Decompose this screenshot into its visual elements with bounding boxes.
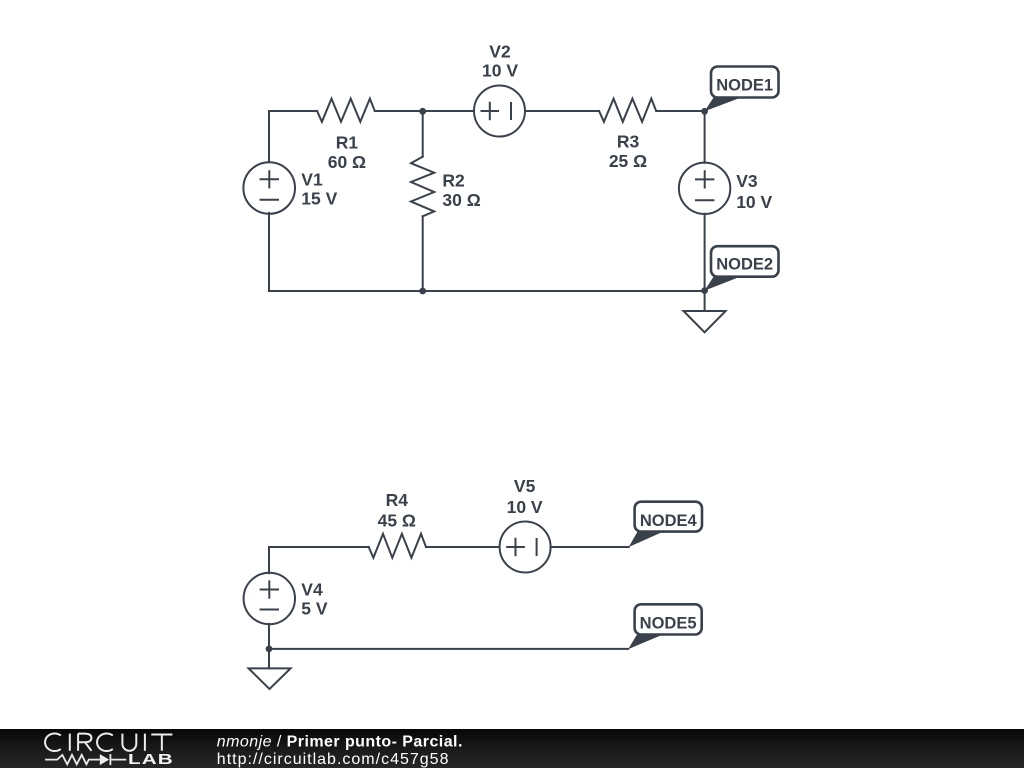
footer bar xyxy=(0,729,1024,768)
svg-text:LAB: LAB xyxy=(128,751,174,768)
resistor R4 xyxy=(369,534,426,558)
resistor R3 xyxy=(599,99,656,122)
svg-text:R2: R2 xyxy=(442,171,465,191)
label V4 xyxy=(301,580,323,600)
footer title text xyxy=(217,734,463,768)
svg-text:NODE2: NODE2 xyxy=(716,255,773,273)
wire R1 to V2 xyxy=(375,110,474,112)
wire R4 to V5 xyxy=(426,546,500,548)
node dot NODE1 xyxy=(701,108,708,115)
svg-text:NODE1: NODE1 xyxy=(716,76,773,94)
label R2 xyxy=(442,171,465,191)
label V1 value 15 V xyxy=(301,188,337,208)
wire V4 bottom xyxy=(268,624,270,649)
svg-text:R1: R1 xyxy=(336,133,359,153)
svg-text:NODE4: NODE4 xyxy=(640,512,698,530)
logo LAB wordmark xyxy=(128,751,174,768)
ground bottom circuit xyxy=(249,649,291,689)
svg-text:V5: V5 xyxy=(514,476,536,496)
wire V1 bottom xyxy=(268,213,270,291)
label V5 value 10 V xyxy=(507,497,543,517)
label V5 xyxy=(514,476,536,496)
wire V3 top xyxy=(704,111,706,163)
svg-text:10 V: 10 V xyxy=(736,192,772,212)
wire V5 to NODE4 xyxy=(551,546,629,548)
svg-text:15 V: 15 V xyxy=(301,188,337,208)
label R4 value 45 Ω xyxy=(378,510,416,530)
wire R3 to node NODE1 xyxy=(656,110,704,112)
label R1 value 60 Ω xyxy=(328,152,366,172)
svg-text:30 Ω: 30 Ω xyxy=(442,190,480,210)
logo resistor-diode glyph xyxy=(45,754,126,765)
wire bottom rail bottom circuit xyxy=(269,648,628,650)
wire R2 top xyxy=(422,111,424,157)
voltage source V5 xyxy=(500,522,551,573)
wire R2 bottom xyxy=(422,216,424,291)
voltage source V1 xyxy=(243,162,295,214)
svg-text:R3: R3 xyxy=(617,132,640,152)
resistor R1 xyxy=(317,99,375,122)
label R1 xyxy=(336,133,359,153)
label V3 xyxy=(736,171,758,191)
svg-text:http://circuitlab.com/c457g58: http://circuitlab.com/c457g58 xyxy=(217,751,450,768)
svg-text:45 Ω: 45 Ω xyxy=(378,510,416,530)
voltage source V3 xyxy=(679,163,730,214)
label V2 xyxy=(489,41,511,61)
label R2 value 30 Ω xyxy=(442,190,480,210)
svg-text:V4: V4 xyxy=(301,580,323,600)
svg-text:10 V: 10 V xyxy=(482,61,518,81)
svg-text:R4: R4 xyxy=(386,490,409,510)
wire bottom circuit top-left vertical xyxy=(268,547,270,573)
svg-text:60 Ω: 60 Ω xyxy=(328,152,366,172)
junction dot V4 bottom xyxy=(266,646,273,653)
voltage source V2 xyxy=(474,86,525,137)
label V3 value 10 V xyxy=(736,192,772,212)
wire V2 to R3 xyxy=(525,110,599,112)
ground top circuit xyxy=(684,291,726,333)
junction dot at R1/R2 node xyxy=(419,108,426,115)
svg-text:nmonje / Primer punto- Parcial: nmonje / Primer punto- Parcial. xyxy=(217,734,463,751)
svg-text:V2: V2 xyxy=(489,41,511,61)
label R4 xyxy=(386,490,409,510)
svg-text:10 V: 10 V xyxy=(507,497,543,517)
wire top rail bottom circuit xyxy=(269,546,369,548)
label V4 value 5 V xyxy=(301,599,328,619)
wire top-left horizontal xyxy=(269,110,317,112)
wire bottom rail xyxy=(269,290,705,292)
node tag NODE2 xyxy=(705,246,779,290)
node tag NODE1 xyxy=(705,67,779,112)
wire left vertical V1 top xyxy=(268,111,270,162)
svg-text:V3: V3 xyxy=(736,171,758,191)
label R3 xyxy=(617,132,640,152)
label V1 xyxy=(301,169,323,189)
svg-text:5 V: 5 V xyxy=(301,599,328,619)
svg-text:NODE5: NODE5 xyxy=(640,614,697,632)
wire V3 bottom xyxy=(704,214,706,291)
label R3 value 25 Ω xyxy=(609,151,647,171)
voltage source V4 xyxy=(244,573,295,624)
svg-text:25 Ω: 25 Ω xyxy=(609,151,647,171)
node dot NODE2 xyxy=(701,287,708,294)
node tag NODE4 xyxy=(629,502,702,547)
logo CIRCUIT wordmark xyxy=(45,733,172,751)
resistor R2 xyxy=(411,157,434,217)
junction dot at R2 bottom xyxy=(419,288,426,295)
svg-text:V1: V1 xyxy=(301,169,323,189)
label V2 value 10 V xyxy=(482,61,518,81)
node tag NODE5 xyxy=(628,604,702,649)
